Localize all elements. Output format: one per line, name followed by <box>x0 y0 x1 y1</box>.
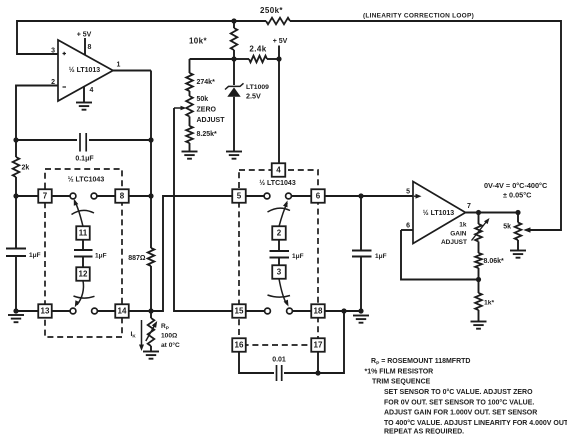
svg-text:4: 4 <box>90 87 94 94</box>
svg-text:2: 2 <box>51 79 55 86</box>
svg-text:ADJUST GAIN FOR 1.000V OUT. SE: ADJUST GAIN FOR 1.000V OUT. SET SENSOR <box>384 410 537 417</box>
svg-text:2: 2 <box>277 229 282 238</box>
svg-text:*1% FILM RESISTOR: *1% FILM RESISTOR <box>365 368 434 375</box>
svg-text:LT1009: LT1009 <box>246 84 269 91</box>
svg-text:2.4k: 2.4k <box>249 45 266 54</box>
svg-text:1μF: 1μF <box>29 252 41 259</box>
svg-text:1k: 1k <box>459 222 467 229</box>
svg-text:5k: 5k <box>503 224 511 231</box>
svg-text:(LINEARITY CORRECTION LOOP): (LINEARITY CORRECTION LOOP) <box>363 13 474 20</box>
svg-text:7: 7 <box>43 192 48 201</box>
svg-text:6: 6 <box>316 192 321 201</box>
svg-text:½ LT1013: ½ LT1013 <box>69 66 100 74</box>
svg-text:REPEAT AS REQUIRED.: REPEAT AS REQUIRED. <box>384 429 464 434</box>
svg-text:0.01: 0.01 <box>272 357 286 364</box>
svg-text:1k*: 1k* <box>484 300 495 307</box>
svg-text:2k: 2k <box>22 165 30 172</box>
svg-text:13: 13 <box>41 307 50 316</box>
svg-text:18: 18 <box>314 307 323 316</box>
svg-text:5: 5 <box>237 192 242 201</box>
svg-text:FOR 0V OUT. SET SENSOR TO 100°: FOR 0V OUT. SET SENSOR TO 100°C VALUE. <box>384 398 534 406</box>
svg-text:6: 6 <box>406 223 410 230</box>
svg-text:1μF: 1μF <box>95 253 107 260</box>
svg-text:GAIN: GAIN <box>450 231 467 238</box>
svg-text:½ LTC1043: ½ LTC1043 <box>68 176 105 184</box>
svg-text:15: 15 <box>235 307 244 316</box>
svg-text:17: 17 <box>314 341 323 350</box>
svg-text:100Ω: 100Ω <box>161 333 178 340</box>
svg-text:ADJUST: ADJUST <box>197 117 226 124</box>
svg-text:14: 14 <box>118 307 127 316</box>
svg-text:274k*: 274k* <box>197 79 216 86</box>
svg-text:3: 3 <box>277 268 282 277</box>
svg-text:16: 16 <box>235 341 244 350</box>
svg-text:5: 5 <box>406 189 410 196</box>
svg-text:12: 12 <box>79 270 88 279</box>
svg-text:887Ω: 887Ω <box>128 255 146 262</box>
svg-text:TO 400°C VALUE. ADJUST LINEARI: TO 400°C VALUE. ADJUST LINEARITY FOR 4.0… <box>384 419 567 427</box>
svg-text:8: 8 <box>120 192 125 201</box>
svg-text:SET SENSOR TO 0°C VALUE. ADJUS: SET SENSOR TO 0°C VALUE. ADJUST ZERO <box>384 388 533 396</box>
svg-text:1: 1 <box>117 62 121 69</box>
svg-text:8.06k*: 8.06k* <box>484 258 505 265</box>
svg-text:+ 5V: + 5V <box>273 38 288 45</box>
svg-text:7: 7 <box>467 203 471 210</box>
svg-text:+ 5V: + 5V <box>77 32 92 39</box>
svg-text:ADJUST: ADJUST <box>441 239 467 246</box>
svg-text:250k*: 250k* <box>260 6 283 15</box>
svg-text:11: 11 <box>79 229 88 238</box>
svg-text:0.1μF: 0.1μF <box>75 156 94 163</box>
svg-text:8: 8 <box>88 44 92 51</box>
svg-text:0V-4V = 0°C-400°C: 0V-4V = 0°C-400°C <box>484 181 548 190</box>
svg-text:at 0°C: at 0°C <box>161 341 180 349</box>
svg-text:ZERO: ZERO <box>197 107 217 114</box>
svg-text:± 0.05°C: ± 0.05°C <box>503 191 532 200</box>
svg-text:10k*: 10k* <box>189 37 208 46</box>
svg-text:50k: 50k <box>197 96 209 103</box>
svg-text:½ LTC1043: ½ LTC1043 <box>259 179 296 187</box>
svg-text:3: 3 <box>51 48 55 55</box>
svg-text:8.25k*: 8.25k* <box>197 131 218 138</box>
svg-text:TRIM SEQUENCE: TRIM SEQUENCE <box>372 379 431 386</box>
svg-text:1μF: 1μF <box>375 253 387 260</box>
svg-text:1μF: 1μF <box>292 253 304 260</box>
svg-text:½ LT1013: ½ LT1013 <box>423 209 454 217</box>
svg-text:4: 4 <box>276 166 281 175</box>
svg-text:2.5V: 2.5V <box>246 92 261 101</box>
